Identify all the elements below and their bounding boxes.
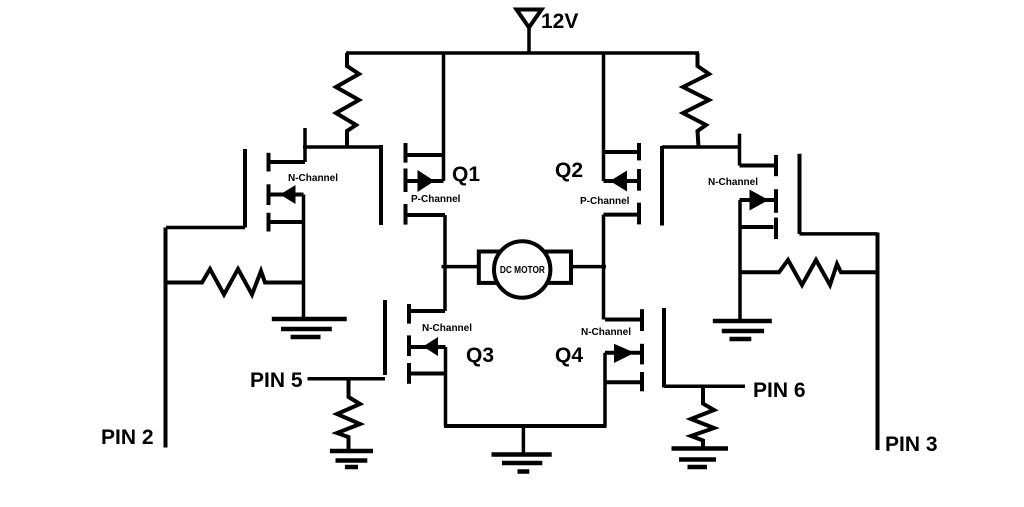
ground right driver source	[713, 321, 772, 339]
resistor right pull-up	[683, 53, 709, 147]
label P-Channel (Q2)	[580, 196, 630, 207]
svg-text:P-Channel: P-Channel	[411, 194, 461, 205]
transistor Q4 N-channel body	[605, 309, 642, 391]
svg-text:N-Channel: N-Channel	[288, 173, 338, 184]
wire motor right lead	[571, 265, 606, 269]
wire Q3 source to bottom rail	[444, 347, 448, 426]
svg-text:Q1: Q1	[452, 163, 480, 186]
wire Q1 source to rail	[442, 53, 446, 181]
label P-Channel (Q1)	[411, 194, 461, 205]
label N-Channel (Q4)	[581, 327, 631, 338]
label DC MOTOR	[500, 265, 546, 276]
transistor left driver N-FET gate bar	[243, 149, 247, 228]
wire Q1 gate junction	[303, 145, 381, 149]
resistor PIN5 pulldown	[337, 379, 360, 449]
label Q4	[555, 344, 583, 367]
power 12V supply symbol	[517, 10, 542, 54]
wire PIN 3 vertical	[876, 233, 880, 451]
label PIN 3	[885, 433, 938, 456]
svg-text:PIN 2: PIN 2	[101, 426, 154, 449]
ground left driver source	[272, 319, 347, 337]
svg-text:Q3: Q3	[466, 344, 494, 367]
label N-Channel (left driver)	[288, 173, 338, 184]
wire Q2 source to rail	[602, 53, 606, 181]
wire right driver drain stub to junction	[738, 134, 742, 166]
svg-text:Q4: Q4	[555, 344, 583, 367]
transistor Q3 N-channel body	[409, 304, 446, 384]
transistor Q2 P-channel body	[604, 143, 640, 224]
svg-text:PIN 3: PIN 3	[885, 433, 938, 456]
transistor left driver N-FET body	[269, 153, 306, 232]
transistor Q1 P-channel body	[406, 143, 446, 225]
svg-text:12V: 12V	[541, 10, 578, 33]
wire Q2 drain to motor node B	[602, 215, 606, 320]
svg-text:N-Channel: N-Channel	[581, 327, 631, 338]
label 12V	[541, 10, 578, 33]
svg-text:N-Channel: N-Channel	[708, 177, 758, 188]
transistor Q2 gate bar	[660, 146, 664, 226]
wire center ground stem	[522, 426, 526, 455]
transistor Q3 gate bar	[383, 300, 387, 375]
svg-text:P-Channel: P-Channel	[580, 196, 630, 207]
wire Q1 drain to motor node A	[443, 215, 447, 311]
svg-text:PIN 6: PIN 6	[753, 379, 806, 402]
label Q2	[555, 159, 583, 182]
transistor right driver N-FET gate bar	[798, 154, 802, 234]
wire top 12V rail	[346, 51, 699, 55]
wire left driver source down to ground	[302, 195, 306, 319]
wire left driver drain stub to junction	[303, 128, 307, 162]
wire PIN3 gate wire	[800, 232, 878, 236]
svg-text:N-Channel: N-Channel	[422, 323, 472, 334]
svg-text:Q2: Q2	[555, 159, 583, 182]
wire Q4 source to bottom rail	[603, 353, 607, 426]
ground PIN5	[330, 451, 373, 467]
label N-Channel (right driver)	[708, 177, 758, 188]
wire motor left lead	[442, 265, 479, 269]
label PIN 6	[753, 379, 806, 402]
wire right driver source down to ground	[738, 200, 742, 321]
label PIN 2	[101, 426, 154, 449]
transistor Q1 gate bar	[379, 145, 383, 225]
motor M1 DC MOTOR	[479, 241, 571, 297]
resistor left pull-up	[336, 53, 359, 147]
svg-text:PIN 5: PIN 5	[250, 369, 303, 392]
transistor Q4 gate bar	[662, 308, 666, 388]
svg-text:DC MOTOR: DC MOTOR	[500, 265, 546, 276]
label Q1	[452, 163, 480, 186]
wire Q2 gate junction	[662, 145, 740, 149]
label PIN 5	[250, 369, 303, 392]
resistor PIN2 pulldown	[166, 269, 304, 295]
wire PIN2 gate wire	[166, 226, 245, 230]
ground center	[492, 455, 552, 472]
transistor right driver N-FET body	[740, 155, 777, 239]
label Q3	[466, 344, 494, 367]
resistor PIN6 pulldown	[691, 386, 714, 447]
wire PIN 5 to Q3 gate	[308, 377, 386, 381]
wire PIN 2 vertical	[164, 228, 168, 448]
resistor PIN3 pulldown	[740, 260, 878, 285]
label N-Channel (Q3)	[422, 323, 472, 334]
ground PIN6	[672, 449, 729, 468]
wire bottom source rail	[444, 424, 607, 428]
wire PIN 6 to Q4 gate	[664, 385, 745, 389]
